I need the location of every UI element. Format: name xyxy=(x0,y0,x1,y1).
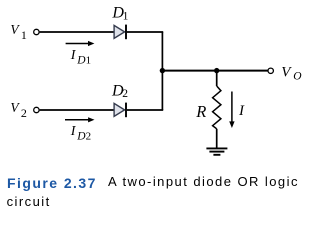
node V1 label xyxy=(10,22,27,42)
label D1 xyxy=(111,4,128,22)
svg-text:2: 2 xyxy=(122,88,128,100)
resistor R zigzag xyxy=(213,86,221,129)
svg-text:V: V xyxy=(10,22,20,37)
caption text line 1 xyxy=(108,175,299,188)
current arrow ID2 xyxy=(65,117,95,122)
node VO label xyxy=(281,64,302,82)
terminal VO xyxy=(268,68,273,73)
label D2 xyxy=(111,82,128,100)
junction node at bus xyxy=(160,68,165,73)
svg-text:1: 1 xyxy=(21,28,27,42)
ground symbol xyxy=(206,148,227,154)
wire V2 to D2 anode xyxy=(40,109,115,111)
junction node at resistor xyxy=(214,68,219,73)
node V2 label xyxy=(10,100,27,120)
svg-text:I: I xyxy=(70,48,77,63)
label ID1 xyxy=(70,48,91,67)
wire V1 to D1 anode xyxy=(40,31,115,33)
current arrow I xyxy=(229,92,234,129)
svg-text:O: O xyxy=(293,71,302,83)
svg-text:I: I xyxy=(70,124,77,139)
current arrow ID1 xyxy=(66,41,95,46)
wire D2 cathode to corner xyxy=(127,109,163,111)
wire output xyxy=(162,70,268,72)
caption text line 2 xyxy=(7,195,51,208)
diode D1 xyxy=(114,25,126,40)
svg-text:R: R xyxy=(195,102,206,121)
wire D1 cathode to corner xyxy=(127,31,163,33)
svg-text:2: 2 xyxy=(86,131,92,143)
diode D2 xyxy=(114,103,126,118)
terminal V2 xyxy=(34,107,39,112)
svg-text:1: 1 xyxy=(123,10,129,22)
svg-text:1: 1 xyxy=(86,55,92,67)
svg-text:2: 2 xyxy=(21,106,27,120)
label ID2 xyxy=(70,124,91,143)
resistor R top lead xyxy=(216,71,218,86)
caption figure number xyxy=(7,177,97,190)
svg-text:I: I xyxy=(238,103,245,119)
wire vertical bus xyxy=(161,32,163,110)
svg-text:V: V xyxy=(10,100,20,115)
svg-text:V: V xyxy=(281,64,292,80)
terminal V1 xyxy=(34,29,39,34)
resistor R bottom lead xyxy=(216,129,218,149)
